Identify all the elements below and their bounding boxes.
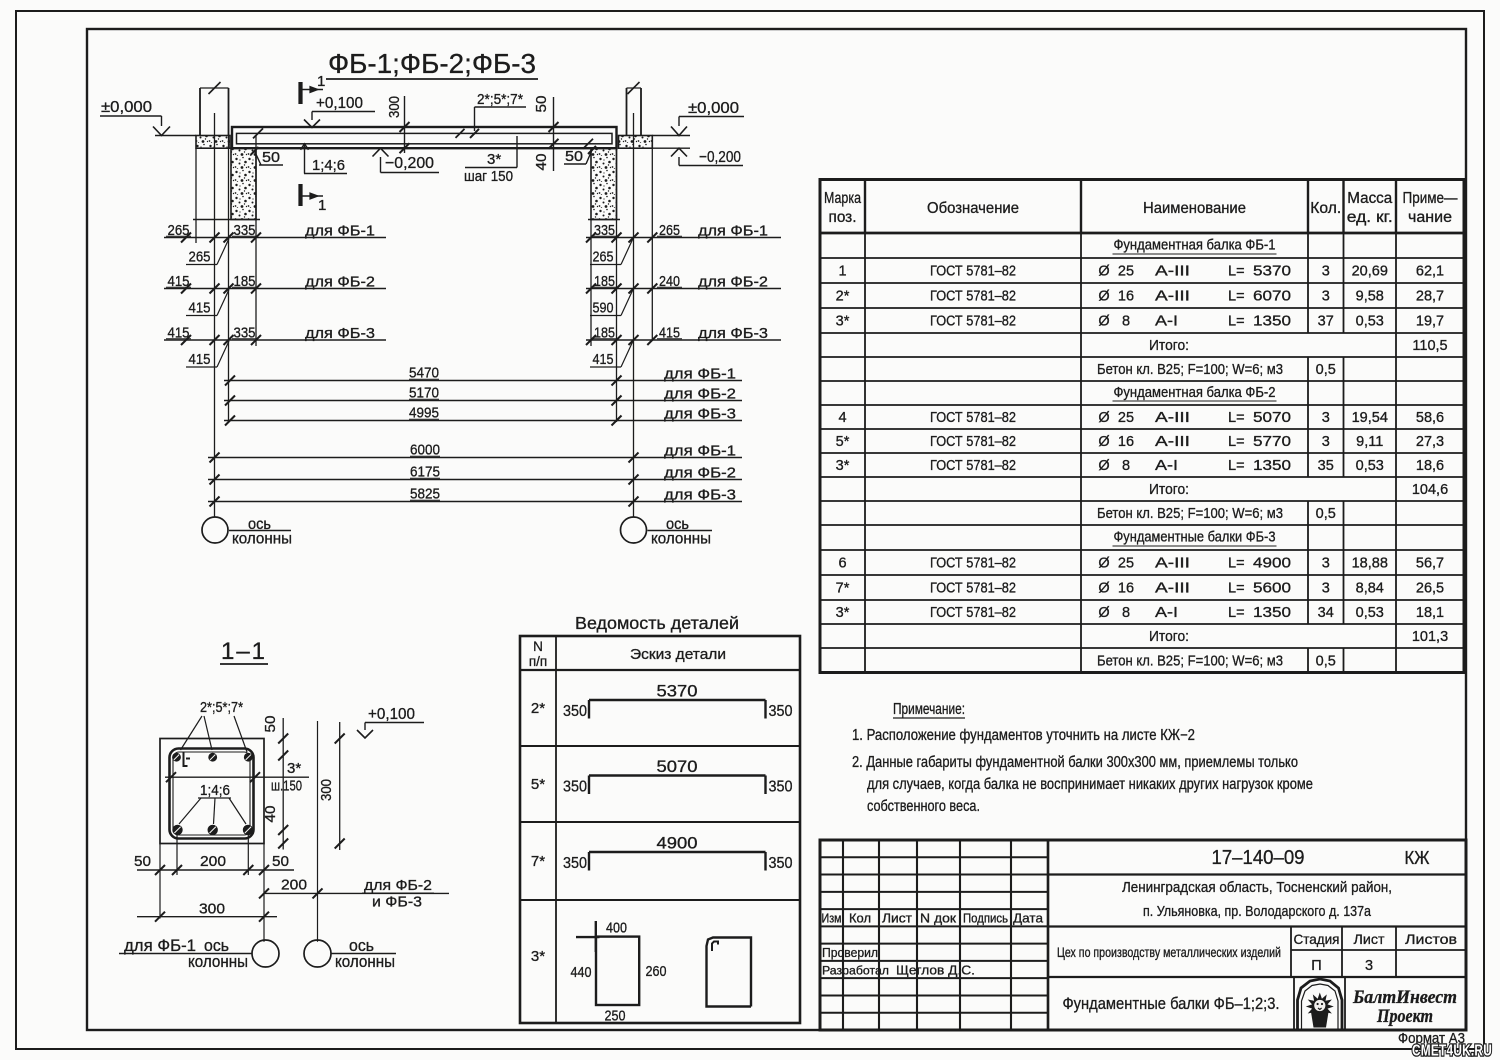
svg-text:для ФБ-1: для ФБ-1: [664, 366, 736, 383]
svg-text:8: 8: [1122, 458, 1130, 474]
svg-text:3*: 3*: [487, 151, 501, 168]
svg-text:26,5: 26,5: [1416, 581, 1444, 597]
svg-text:Проект: Проект: [1376, 1007, 1433, 1027]
svg-text:25: 25: [1118, 264, 1134, 280]
svg-text:56,7: 56,7: [1416, 556, 1444, 572]
svg-text:3: 3: [1365, 958, 1373, 974]
svg-text:16: 16: [1118, 434, 1134, 450]
svg-text:7*: 7*: [531, 853, 545, 870]
svg-text:3: 3: [1322, 410, 1330, 426]
svg-text:Эскиз детали: Эскиз детали: [630, 647, 726, 663]
svg-text:−0,200: −0,200: [699, 149, 741, 166]
svg-text:2. Данные габариты фундаментн: 2. Данные габариты фундаментной балки 30…: [852, 754, 1298, 771]
svg-text:3: 3: [1322, 581, 1330, 597]
svg-text:А-I: А-I: [1155, 314, 1178, 330]
svg-text:Итого:: Итого:: [1149, 629, 1189, 645]
svg-text:1350: 1350: [1253, 458, 1291, 474]
svg-text:L=: L=: [1228, 314, 1245, 330]
svg-text:Наименование: Наименование: [1143, 200, 1246, 217]
svg-text:18,88: 18,88: [1352, 556, 1388, 572]
svg-text:19,54: 19,54: [1352, 410, 1388, 426]
svg-text:колонны: колонны: [335, 953, 395, 971]
svg-text:1;4;6: 1;4;6: [200, 782, 230, 799]
svg-text:±0,000: ±0,000: [688, 100, 739, 117]
svg-text:колонны: колонны: [651, 531, 711, 548]
svg-text:для ФБ-2: для ФБ-2: [664, 386, 736, 403]
svg-text:50: 50: [134, 853, 151, 870]
svg-text:для ФБ-2: для ФБ-2: [664, 465, 736, 482]
svg-text:А-III: А-III: [1155, 289, 1190, 305]
svg-text:3*: 3*: [836, 314, 850, 330]
svg-text:4900: 4900: [1253, 556, 1291, 572]
svg-text:350: 350: [563, 703, 587, 720]
svg-text:Марка: Марка: [824, 190, 861, 207]
svg-text:Фундаментные балки ФБ–1;2;3.: Фундаментные балки ФБ–1;2;3.: [1063, 994, 1280, 1013]
svg-text:18,6: 18,6: [1416, 458, 1444, 474]
svg-text:1350: 1350: [1253, 314, 1291, 330]
svg-text:0,53: 0,53: [1356, 605, 1384, 621]
svg-text:58,6: 58,6: [1416, 410, 1444, 426]
svg-text:Бетон кл. В25; F=100; W=6; м3: Бетон кл. В25; F=100; W=6; м3: [1097, 506, 1283, 522]
svg-text:50: 50: [262, 716, 279, 733]
svg-text:350: 350: [769, 703, 793, 720]
svg-text:0,5: 0,5: [1316, 653, 1336, 669]
svg-text:Масса: Масса: [1347, 190, 1392, 207]
svg-text:L=: L=: [1228, 410, 1245, 426]
svg-text:5070: 5070: [1253, 410, 1291, 426]
svg-text:собственного веса.: собственного веса.: [867, 798, 980, 815]
svg-text:для ФБ-2: для ФБ-2: [698, 274, 768, 291]
svg-text:5600: 5600: [1253, 581, 1291, 597]
svg-text:Приме—: Приме—: [1403, 190, 1458, 207]
svg-text:3*: 3*: [836, 605, 850, 621]
svg-text:400: 400: [606, 920, 627, 937]
svg-text:А-III: А-III: [1155, 434, 1190, 450]
svg-text:50: 50: [533, 96, 550, 113]
svg-text:0,53: 0,53: [1356, 314, 1384, 330]
svg-text:40: 40: [533, 154, 550, 171]
svg-text:L=: L=: [1228, 434, 1245, 450]
svg-text:поз.: поз.: [829, 209, 857, 226]
svg-text:Итого:: Итого:: [1149, 338, 1189, 354]
svg-text:БалтИнвест: БалтИнвест: [1352, 988, 1457, 1008]
svg-text:Фундаментная балка ФБ-2: Фундаментная балка ФБ-2: [1114, 385, 1276, 401]
svg-text:200: 200: [281, 877, 307, 894]
svg-text:440: 440: [571, 964, 592, 981]
svg-text:350: 350: [769, 855, 793, 872]
svg-text:8: 8: [1122, 314, 1130, 330]
svg-text:Изм: Изм: [822, 912, 842, 926]
svg-text:Ø: Ø: [1098, 556, 1109, 572]
svg-text:16: 16: [1118, 289, 1134, 305]
svg-text:L=: L=: [1228, 605, 1245, 621]
svg-text:265: 265: [593, 249, 614, 266]
svg-text:L=: L=: [1228, 458, 1245, 474]
svg-text:27,3: 27,3: [1416, 434, 1444, 450]
svg-text:шаг 150: шаг 150: [464, 168, 513, 185]
svg-text:N: N: [533, 639, 543, 654]
svg-text:п/п: п/п: [529, 654, 547, 669]
svg-text:1350: 1350: [1253, 605, 1291, 621]
svg-text:для ФБ-1: для ФБ-1: [305, 223, 375, 240]
svg-text:Примечание:: Примечание:: [893, 701, 965, 718]
svg-text:L=: L=: [1228, 556, 1245, 572]
svg-text:+0,100: +0,100: [368, 706, 415, 723]
svg-text:6070: 6070: [1253, 289, 1291, 305]
svg-text:Ø: Ø: [1098, 605, 1109, 621]
svg-text:L=: L=: [1228, 581, 1245, 597]
svg-text:КЖ: КЖ: [1405, 848, 1430, 868]
svg-text:101,3: 101,3: [1412, 629, 1448, 645]
svg-text:CMET4UK.RU: CMET4UK.RU: [1412, 1043, 1492, 1060]
svg-text:260: 260: [646, 963, 667, 980]
svg-text:Ø: Ø: [1098, 264, 1109, 280]
svg-text:8: 8: [1122, 605, 1130, 621]
svg-text:350: 350: [563, 855, 587, 872]
svg-text:Ø: Ø: [1098, 458, 1109, 474]
svg-text:50: 50: [262, 149, 280, 166]
svg-text:±0,000: ±0,000: [101, 99, 152, 116]
svg-text:ГОСТ 5781–82: ГОСТ 5781–82: [930, 458, 1016, 474]
svg-text:415: 415: [189, 300, 211, 317]
svg-text:350: 350: [563, 779, 587, 796]
svg-text:40: 40: [262, 806, 279, 823]
svg-text:20,69: 20,69: [1352, 264, 1388, 280]
svg-text:для ФБ-1: для ФБ-1: [698, 223, 768, 240]
svg-text:200: 200: [200, 853, 226, 870]
svg-text:Ø: Ø: [1098, 410, 1109, 426]
svg-text:1–1: 1–1: [221, 638, 267, 665]
svg-text:Итого:: Итого:: [1149, 482, 1189, 498]
svg-text:5070: 5070: [657, 758, 698, 776]
svg-text:350: 350: [769, 779, 793, 796]
svg-text:3: 3: [1322, 434, 1330, 450]
svg-text:ш.150: ш.150: [271, 778, 302, 795]
svg-text:Обозначение: Обозначение: [927, 200, 1019, 217]
svg-text:5*: 5*: [836, 434, 850, 450]
svg-text:2*;5*;7*: 2*;5*;7*: [477, 91, 523, 108]
svg-text:для ФБ-1: для ФБ-1: [664, 443, 736, 460]
svg-text:34: 34: [1318, 605, 1334, 621]
svg-text:для ФБ-3: для ФБ-3: [664, 487, 736, 504]
svg-text:3*: 3*: [531, 948, 545, 965]
svg-text:ГОСТ 5781–82: ГОСТ 5781–82: [930, 605, 1016, 621]
svg-text:Кол.: Кол.: [1310, 200, 1341, 217]
svg-text:Щеглов Д.С.: Щеглов Д.С.: [896, 963, 975, 978]
svg-text:1: 1: [317, 73, 325, 90]
svg-text:ед. кг.: ед. кг.: [1347, 209, 1393, 226]
svg-text:0,5: 0,5: [1316, 362, 1336, 378]
svg-text:28,7: 28,7: [1416, 289, 1444, 305]
svg-text:Фундаментная балка ФБ-1: Фундаментная балка ФБ-1: [1114, 238, 1276, 254]
svg-text:для ФБ-3: для ФБ-3: [305, 325, 375, 342]
svg-text:110,5: 110,5: [1412, 338, 1447, 354]
svg-text:Ø: Ø: [1098, 581, 1109, 597]
svg-text:1: 1: [838, 264, 846, 280]
svg-text:3: 3: [1322, 556, 1330, 572]
svg-text:50: 50: [565, 148, 583, 165]
svg-text:для ФБ-1: для ФБ-1: [124, 937, 196, 955]
svg-text:1;4;6: 1;4;6: [312, 157, 345, 174]
svg-text:8,84: 8,84: [1356, 581, 1384, 597]
svg-text:ГОСТ 5781–82: ГОСТ 5781–82: [930, 434, 1016, 450]
svg-text:ГОСТ 5781–82: ГОСТ 5781–82: [930, 289, 1016, 305]
svg-text:Ведомость деталей: Ведомость деталей: [575, 613, 739, 633]
svg-text:415: 415: [593, 351, 614, 368]
svg-text:18,1: 18,1: [1416, 605, 1444, 621]
svg-text:16: 16: [1118, 581, 1134, 597]
svg-text:265: 265: [189, 249, 211, 266]
svg-text:А-I: А-I: [1155, 605, 1178, 621]
svg-text:ГОСТ 5781–82: ГОСТ 5781–82: [930, 556, 1016, 572]
svg-text:Подпись: Подпись: [963, 912, 1008, 926]
svg-text:590: 590: [593, 300, 614, 317]
svg-text:А-III: А-III: [1155, 410, 1190, 426]
svg-text:415: 415: [189, 351, 211, 368]
svg-text:9,11: 9,11: [1356, 434, 1383, 450]
svg-text:L=: L=: [1228, 264, 1245, 280]
svg-text:5770: 5770: [1253, 434, 1291, 450]
svg-text:чание: чание: [1408, 209, 1452, 226]
svg-text:Ø: Ø: [1098, 434, 1109, 450]
svg-text:3: 3: [1322, 264, 1330, 280]
svg-text:3: 3: [1322, 289, 1330, 305]
svg-text:А-I: А-I: [1155, 458, 1178, 474]
svg-text:300: 300: [318, 779, 335, 801]
svg-text:для ФБ-2: для ФБ-2: [364, 877, 432, 894]
svg-text:Цех по производству металличес: Цех по производству металлических издели…: [1057, 945, 1281, 960]
svg-text:Бетон кл. В25; F=100; W=6; м3: Бетон кл. В25; F=100; W=6; м3: [1097, 362, 1283, 378]
svg-text:L=: L=: [1228, 289, 1245, 305]
svg-text:ГОСТ 5781–82: ГОСТ 5781–82: [930, 410, 1016, 426]
svg-text:9,58: 9,58: [1356, 289, 1384, 305]
svg-text:А-III: А-III: [1155, 556, 1190, 572]
svg-text:300: 300: [386, 96, 403, 118]
svg-text:37: 37: [1318, 314, 1334, 330]
svg-text:35: 35: [1318, 458, 1334, 474]
svg-text:+0,100: +0,100: [316, 95, 363, 112]
svg-text:−0,200: −0,200: [385, 155, 434, 172]
svg-text:2*: 2*: [836, 289, 850, 305]
svg-text:1. Расположение фундаментов у: 1. Расположение фундаментов уточнить на …: [852, 727, 1195, 744]
svg-text:Фундаментные балки ФБ-3: Фундаментные балки ФБ-3: [1114, 530, 1276, 546]
svg-text:Ø: Ø: [1098, 314, 1109, 330]
svg-text:для ФБ-3: для ФБ-3: [664, 406, 736, 423]
svg-text:п. Ульяновка, пр. Володарского: п. Ульяновка, пр. Володарского д. 137а: [1143, 903, 1372, 920]
svg-text:104,6: 104,6: [1412, 482, 1448, 498]
svg-text:Стадия: Стадия: [1294, 931, 1340, 947]
svg-text:Листов: Листов: [1405, 931, 1457, 947]
svg-text:Ø: Ø: [1098, 289, 1109, 305]
svg-text:25: 25: [1118, 410, 1134, 426]
svg-text:250: 250: [605, 1008, 626, 1025]
svg-text:1: 1: [318, 197, 326, 214]
svg-text:Ленинградская область, Тосненс: Ленинградская область, Тосненский район,: [1122, 879, 1392, 896]
svg-text:ФБ-1;ФБ-2;ФБ-3: ФБ-1;ФБ-2;ФБ-3: [328, 48, 536, 79]
svg-text:300: 300: [199, 901, 225, 918]
svg-text:ГОСТ 5781–82: ГОСТ 5781–82: [930, 314, 1016, 330]
svg-text:Проверил: Проверил: [822, 945, 878, 960]
svg-text:0,5: 0,5: [1316, 506, 1336, 522]
svg-text:4900: 4900: [657, 835, 698, 853]
svg-text:6: 6: [838, 556, 846, 572]
svg-text:ГОСТ 5781–82: ГОСТ 5781–82: [930, 581, 1016, 597]
svg-text:2*;5*;7*: 2*;5*;7*: [200, 699, 243, 716]
svg-text:17–140–09: 17–140–09: [1212, 847, 1305, 869]
svg-text:5370: 5370: [1253, 264, 1291, 280]
svg-text:5370: 5370: [657, 683, 698, 701]
svg-text:ГОСТ 5781–82: ГОСТ 5781–82: [930, 264, 1016, 280]
svg-text:7*: 7*: [836, 581, 850, 597]
svg-text:колонны: колонны: [232, 531, 292, 548]
svg-text:62,1: 62,1: [1416, 264, 1444, 280]
svg-text:0,53: 0,53: [1356, 458, 1384, 474]
svg-text:25: 25: [1118, 556, 1134, 572]
svg-text:19,7: 19,7: [1416, 314, 1444, 330]
svg-text:3*: 3*: [287, 760, 301, 777]
svg-text:Разработал: Разработал: [822, 964, 889, 978]
svg-text:для случаев, когда балка не во: для случаев, когда балка не воспринимает…: [867, 776, 1313, 793]
svg-text:А-III: А-III: [1155, 581, 1190, 597]
svg-text:Лист: Лист: [1354, 931, 1386, 947]
svg-text:3*: 3*: [836, 458, 850, 474]
svg-text:5*: 5*: [531, 776, 545, 793]
svg-text:и ФБ-3: и ФБ-3: [372, 894, 422, 911]
svg-text:Лист: Лист: [882, 912, 912, 926]
svg-text:N док: N док: [920, 912, 957, 926]
svg-text:2*: 2*: [531, 700, 545, 717]
svg-text:Дата: Дата: [1013, 912, 1043, 926]
svg-text:для ФБ-2: для ФБ-2: [305, 274, 375, 291]
svg-text:П: П: [1311, 958, 1321, 974]
svg-text:А-III: А-III: [1155, 264, 1190, 280]
svg-text:4: 4: [838, 410, 846, 426]
svg-text:колонны: колонны: [188, 953, 248, 971]
svg-text:Бетон кл. В25; F=100; W=6; м3: Бетон кл. В25; F=100; W=6; м3: [1097, 653, 1283, 669]
svg-text:для ФБ-3: для ФБ-3: [698, 325, 768, 342]
svg-text:50: 50: [272, 853, 289, 870]
svg-text:Кол: Кол: [849, 912, 871, 926]
